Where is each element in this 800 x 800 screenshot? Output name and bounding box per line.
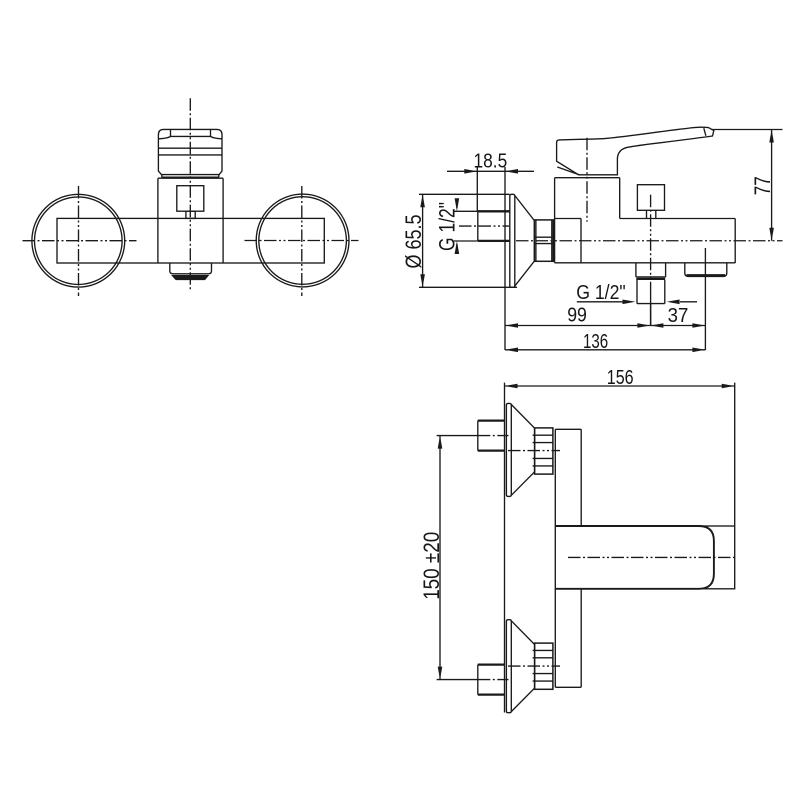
- top union knurl ticks: [533, 435, 535, 466]
- dim 136 line: [505, 349, 705, 351]
- pipe axis side view: [459, 225, 509, 227]
- label G1/2 leader arrows: [577, 301, 697, 303]
- wall thread pipe side view: [478, 211, 510, 241]
- dim 156 arrows: [505, 384, 735, 389]
- spout bottom view: [555, 526, 734, 589]
- svg-text:156: 156: [607, 367, 634, 389]
- dim 156 line: [505, 385, 735, 387]
- spout rounded end contour: [555, 526, 714, 589]
- dim 150+-20 arrows: [438, 436, 443, 680]
- dim dia65.5 extension lines: [419, 194, 517, 287]
- escutcheon cone side view: [515, 196, 535, 287]
- diverter knob front view: [177, 186, 204, 212]
- tub spout outlet side view: [685, 263, 727, 276]
- body axis side view: [516, 240, 783, 242]
- centerline body vertical: [189, 98, 191, 289]
- body bar front view: [57, 218, 324, 263]
- svg-text:136: 136: [583, 331, 608, 353]
- body column front view: [158, 178, 223, 263]
- svg-text:37: 37: [668, 305, 689, 327]
- top escutcheon cone bottom view: [511, 405, 534, 496]
- handle side view: [557, 127, 714, 175]
- top union nut bottom view: [535, 428, 553, 474]
- dim dia65.5 arrows: [420, 194, 425, 287]
- cap skirt: [162, 175, 219, 178]
- bottom union pipe axis + 150 extension: [437, 679, 478, 681]
- wall plane extension line bottom view: [504, 383, 506, 713]
- centerline left circle horizontal: [23, 240, 137, 242]
- left escutcheon inner circle: [35, 197, 123, 285]
- spout outlet bottom thick edge: [687, 274, 726, 276]
- cap groove lines: [158, 148, 222, 155]
- svg-text:Ø 65.5: Ø 65.5: [401, 215, 426, 269]
- diverter axis side view: [650, 195, 652, 290]
- top union pipe axis + 150 extension: [437, 435, 478, 437]
- dim G1/2 line: [456, 203, 458, 254]
- bottom escutcheon disc bottom view: [506, 620, 511, 713]
- svg-text:G 1/2": G 1/2": [576, 282, 626, 304]
- svg-text:77: 77: [750, 176, 775, 195]
- centerline right circle horizontal: [245, 240, 359, 242]
- svg-text:99: 99: [567, 305, 587, 327]
- aerator ring front view: [173, 276, 208, 280]
- dim 99-37 arrows: [505, 323, 705, 328]
- shower outlet locknut: [636, 278, 665, 280]
- svg-text:150 ±20: 150 ±20: [419, 532, 444, 600]
- dim dia65.5 line: [422, 194, 424, 287]
- dim 150+-20 line: [439, 436, 441, 680]
- handle inner edge lines: [557, 128, 706, 175]
- knob stem front view: [186, 211, 195, 218]
- diverter knob side view: [637, 185, 664, 211]
- bottom union knurl ticks: [533, 650, 535, 681]
- spout axis extension line: [704, 248, 706, 350]
- svg-text:G 1/2": G 1/2": [435, 202, 460, 251]
- svg-text:18.5: 18.5: [474, 150, 508, 172]
- bottom escutcheon cone bottom view: [511, 621, 534, 712]
- escutcheon disc side view: [510, 194, 515, 287]
- cap dome parting line: [158, 130, 222, 139]
- body column bottom view: [555, 429, 581, 687]
- dim 18.5 line: [447, 170, 534, 172]
- handle cap front view: [158, 129, 222, 174]
- dim G1/2 arrows: [455, 198, 460, 254]
- shower outlet nipple: [637, 280, 665, 304]
- dim 77 arrows: [769, 130, 774, 241]
- dim 77 line: [771, 130, 773, 241]
- knob stem side view: [647, 210, 656, 218]
- bottom union faucet axis: [508, 665, 560, 667]
- shower outlet axis extension: [650, 303, 652, 326]
- centerline right circle vertical: [301, 186, 303, 296]
- right escutcheon outer circle: [256, 194, 349, 287]
- body side view: [555, 178, 736, 263]
- left escutcheon outer circle: [32, 194, 125, 287]
- dim 99-37 line: [505, 325, 705, 327]
- bottom union nut bottom view: [535, 643, 553, 689]
- top union pipe bottom view: [478, 421, 505, 451]
- spout axis bottom view: [568, 556, 738, 558]
- top escutcheon disc bottom view: [506, 403, 511, 496]
- dim 136 arrows: [505, 348, 705, 353]
- spout tip extension line: [734, 383, 736, 526]
- centerline left circle vertical: [78, 186, 80, 296]
- right escutcheon inner circle: [259, 197, 347, 285]
- dim 77 extension line top: [712, 129, 783, 131]
- bottom union pipe bottom view: [478, 665, 505, 695]
- union nut side view: [534, 220, 553, 261]
- aerator housing front view: [170, 263, 212, 274]
- dim 18.5 arrows: [464, 169, 518, 174]
- cartridge axis side view: [586, 138, 588, 222]
- dim G1/2 top extension lines: [454, 211, 478, 241]
- wall plane extension line: [504, 167, 506, 350]
- dim 18.5 extension line left: [476, 167, 478, 211]
- shower outlet side view: [636, 263, 666, 277]
- top union faucet axis: [508, 450, 560, 452]
